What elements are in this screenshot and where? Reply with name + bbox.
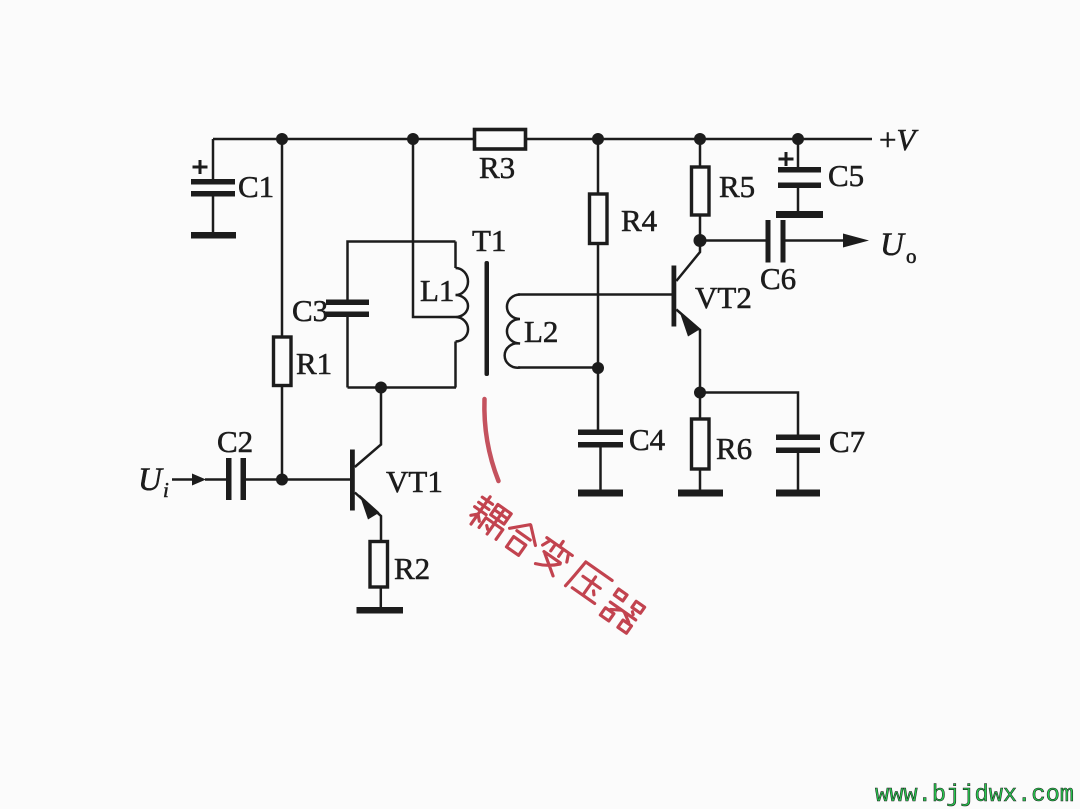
char 压 [566, 560, 613, 606]
svg-text:C3: C3 [292, 293, 328, 328]
resistor R2 [370, 542, 388, 608]
wire output arrow [786, 234, 870, 248]
label R1 [296, 346, 332, 381]
svg-text:T1: T1 [472, 223, 506, 258]
label C5 [828, 158, 864, 193]
inductor L2 [505, 295, 520, 368]
resistor R6 [692, 393, 710, 490]
label R2 [394, 551, 430, 586]
node junction tank-collector [375, 382, 387, 394]
resistor R1 [274, 139, 292, 480]
resistor R5 [692, 139, 710, 241]
ground R6 [678, 490, 723, 497]
label L2 [524, 314, 558, 349]
svg-text:C1: C1 [238, 169, 274, 204]
svg-text:www.bjjdwx.com: www.bjjdwx.com [875, 782, 1074, 809]
resistor R4 [590, 139, 608, 368]
wire L2 bottom to node [518, 366, 598, 369]
capacitor C2 [226, 458, 350, 500]
label C7 [829, 424, 865, 459]
node junction C2-R1-base [276, 474, 288, 486]
svg-text:C7: C7 [829, 424, 865, 459]
wire tap from rail to L1 [413, 139, 456, 317]
transistor VT1 [350, 388, 381, 542]
label R4 [621, 203, 658, 238]
svg-text:R4: R4 [621, 203, 658, 238]
node junction rail-R1 [276, 133, 288, 145]
svg-text:C2: C2 [217, 424, 253, 459]
inductor L1 [456, 242, 469, 388]
svg-text:L1: L1 [420, 273, 454, 308]
annotation text 耦合变压器 (coupling transformer) [465, 493, 644, 633]
ground R2 [357, 607, 404, 614]
label VT2 [695, 280, 752, 315]
label C2 [217, 424, 253, 459]
capacitor C3 [326, 300, 369, 318]
label R3 [479, 150, 515, 185]
svg-text:i: i [163, 478, 169, 502]
node junction rail-C5 [792, 133, 804, 145]
watermark www.bjjdwx.com [875, 782, 1074, 809]
capacitor C6 [700, 220, 786, 263]
svg-text:U: U [880, 227, 906, 263]
ground C7 [776, 490, 820, 497]
label L1 [420, 273, 454, 308]
capacitor C7 [700, 393, 820, 490]
svg-text:C5: C5 [828, 158, 864, 193]
char 合 [500, 516, 544, 560]
node junction R5-C6-collector [694, 234, 707, 247]
ground C1 [191, 232, 236, 239]
svg-text:R3: R3 [479, 150, 515, 185]
svg-text:L2: L2 [524, 314, 558, 349]
svg-text:R5: R5 [719, 169, 755, 204]
capacitor C4 [578, 368, 623, 490]
svg-text:+V: +V [879, 122, 918, 157]
label C1 [238, 169, 274, 204]
label Uo [880, 227, 917, 268]
svg-text:U: U [138, 462, 164, 498]
node junction rail-R5 [694, 133, 706, 145]
ground C4 [578, 490, 623, 497]
node junction rail-R4 [592, 133, 604, 145]
svg-text:C4: C4 [629, 422, 666, 457]
label C4 [629, 422, 666, 457]
char 器 [600, 589, 644, 633]
label +V [879, 122, 918, 157]
svg-text:R1: R1 [296, 346, 332, 381]
wire tank left + top + bottom [348, 242, 457, 388]
ground C5 [776, 211, 823, 218]
label R5 [719, 169, 755, 204]
svg-text:R2: R2 [394, 551, 430, 586]
node junction rail-tap [407, 133, 419, 145]
label VT1 [386, 464, 443, 499]
svg-text:VT1: VT1 [386, 464, 443, 499]
resistor R3 [475, 130, 526, 150]
svg-text:C6: C6 [760, 261, 796, 296]
label T1 [472, 223, 506, 258]
label R6 [716, 431, 752, 466]
char 变 [531, 533, 576, 579]
wire input arrow [172, 474, 226, 486]
label C3 [292, 293, 328, 328]
char 耦 [465, 493, 514, 541]
transistor VT2 [672, 241, 701, 393]
svg-text:o: o [906, 244, 917, 268]
capacitor C1 [191, 139, 235, 232]
svg-text:VT2: VT2 [695, 280, 752, 315]
capacitor C5 [778, 139, 821, 211]
wire L2 top to VT2 base [518, 293, 672, 296]
label Ui [138, 462, 169, 502]
annotation red pointer curve [484, 399, 498, 481]
transformer core T1 [485, 261, 490, 376]
wire +V rail [213, 138, 872, 141]
svg-text:R6: R6 [716, 431, 752, 466]
node junction emitter-R6-C7 [694, 387, 706, 399]
node junction L2-R4-C4 [592, 362, 604, 374]
label C6 [760, 261, 796, 296]
